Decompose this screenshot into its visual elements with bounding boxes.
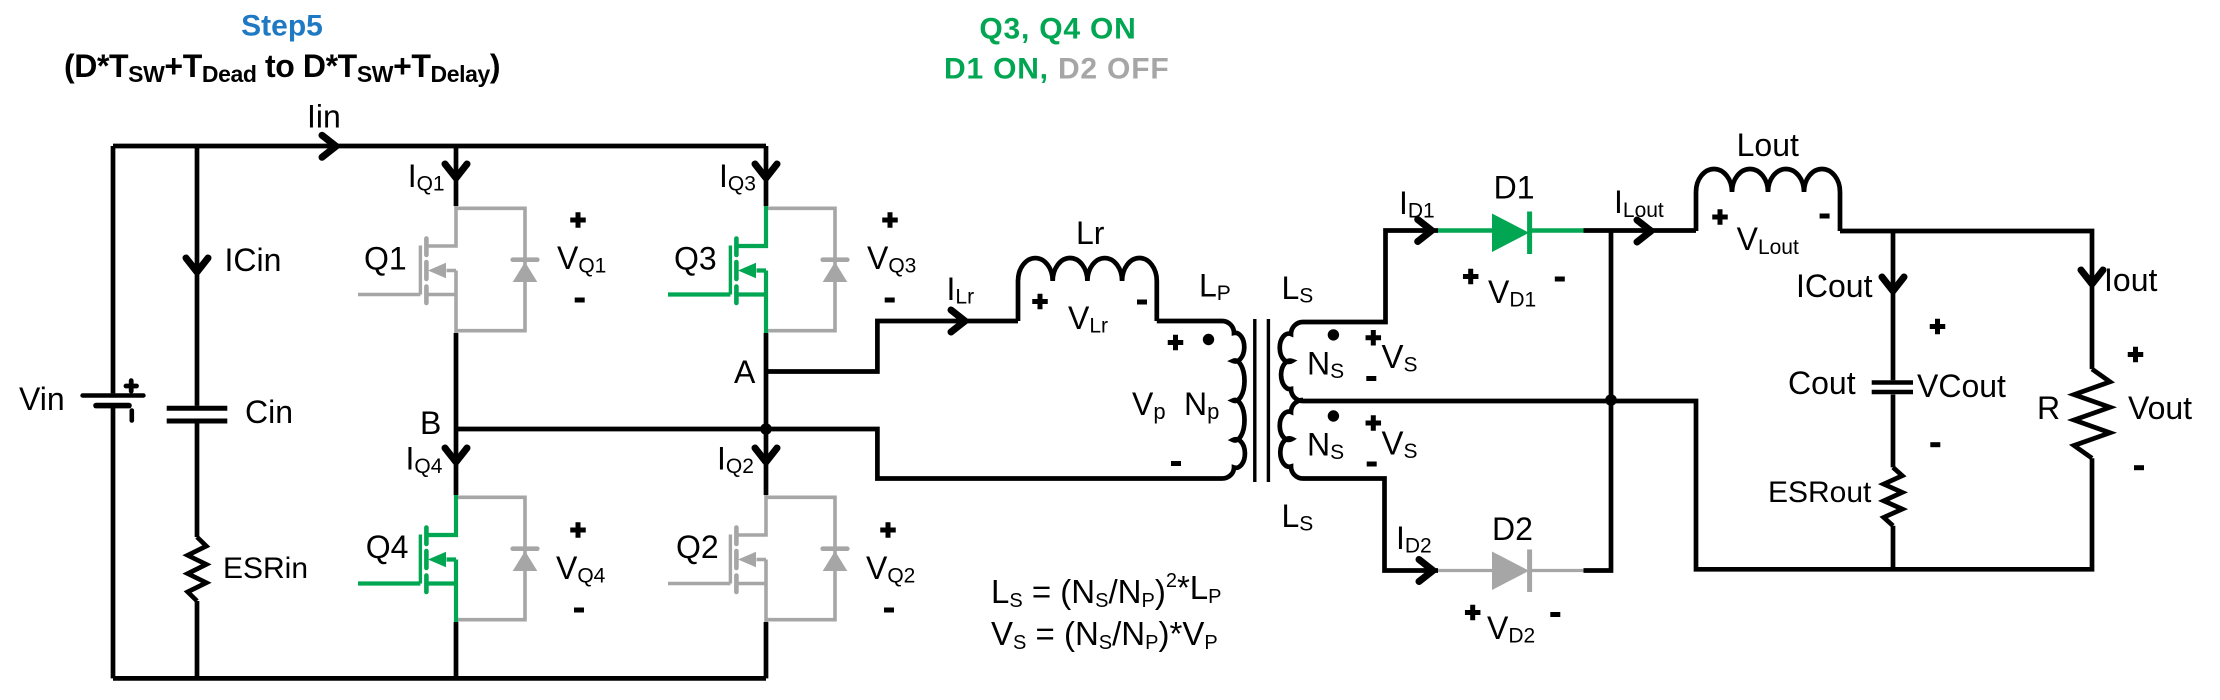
svg-text:Vin: Vin: [19, 381, 65, 417]
wire right leg bottom: [764, 622, 769, 678]
transistor Q3 (on, green) with body diode: [668, 206, 847, 333]
battery Vin: [83, 381, 144, 421]
transistor Q2 (off, gray) with body diode: [668, 495, 847, 622]
svg-text:Q3: Q3: [674, 241, 717, 277]
wire Cin branch upper: [195, 146, 200, 406]
inductor Lout: [1696, 169, 1840, 231]
svg-text:Q1: Q1: [364, 241, 407, 277]
label + Vout -: [2128, 347, 2192, 468]
svg-text:Cin: Cin: [245, 394, 293, 430]
arrow Iin: [322, 135, 336, 157]
arrow IQ2: [755, 448, 777, 462]
diode D1 (on, green): [1438, 212, 1584, 255]
svg-text:Lout: Lout: [1737, 127, 1799, 163]
wire D2 output: [1584, 400, 1612, 571]
label primary +: [1168, 335, 1184, 351]
wire right leg top: [764, 146, 769, 206]
arrow ID1: [1418, 220, 1432, 242]
svg-text:Lr: Lr: [1076, 215, 1105, 251]
arrow ICin: [186, 258, 208, 272]
wire Lout to load: [1840, 231, 2092, 369]
arrow IQ4: [445, 448, 467, 462]
label + VQ1 -: [557, 212, 606, 300]
svg-text:Iout: Iout: [2104, 262, 2157, 298]
wire bottom rail: [113, 676, 766, 681]
svg-text:Step5: Step5: [241, 10, 323, 43]
dot Ls bottom polarity: [1328, 410, 1339, 421]
transformer core: [1255, 319, 1269, 482]
svg-text:Iin: Iin: [307, 99, 341, 135]
label + VQ4 -: [556, 522, 606, 610]
svg-text:B: B: [420, 405, 441, 441]
wire Lr to transformer primary / winding Lp: [456, 321, 1245, 479]
wire Cin branch middle: [195, 423, 200, 537]
label + VLout -: [1712, 209, 1829, 259]
wire left vertical upper (Vin +): [111, 146, 116, 393]
transistor Q4 (on, green) with body diode: [358, 495, 537, 622]
wire top rail: [113, 144, 766, 149]
arrow IQ1: [445, 164, 467, 178]
transistor Q1 (off, gray) with body diode: [358, 206, 537, 333]
junction dot rectifier bus: [1605, 394, 1617, 406]
arrow ILout: [1637, 220, 1651, 242]
label + VD2 -: [1465, 605, 1560, 648]
wire left vertical lower (Vin -): [111, 408, 116, 679]
svg-text:ESRout: ESRout: [1768, 476, 1872, 509]
arrow ICout: [1882, 277, 1904, 291]
label primary -: [1171, 461, 1181, 466]
svg-text:Q2: Q2: [676, 529, 719, 565]
resistor R (load): [2074, 369, 2110, 458]
capacitor Cout: [1872, 383, 1913, 393]
resistor ESRout: [1884, 467, 1903, 525]
svg-text:ESRin: ESRin: [223, 552, 308, 585]
wire left leg top: [454, 146, 459, 206]
dot Ls top polarity: [1328, 329, 1339, 340]
diode D2 (off, gray): [1438, 550, 1584, 593]
wire D1 output to Lout: [1584, 228, 1697, 233]
inductor Lr: [1018, 258, 1157, 321]
svg-text:ICout: ICout: [1796, 268, 1873, 304]
svg-text:Q3, Q4 ON: Q3, Q4 ON: [979, 13, 1136, 46]
svg-text:A: A: [734, 354, 756, 390]
arrow ID2: [1419, 560, 1433, 582]
dot primary polarity: [1203, 334, 1214, 345]
wire right leg middle (A node): [764, 333, 769, 495]
svg-text:D2: D2: [1492, 511, 1533, 547]
wire Cin branch lower: [195, 601, 200, 678]
arrow Iout: [2081, 270, 2103, 284]
svg-text:R: R: [2037, 390, 2060, 426]
svg-text:ICin: ICin: [225, 242, 282, 278]
arrow IQ3: [755, 164, 777, 178]
svg-text:VCout: VCout: [1917, 368, 2006, 404]
label + VS - bottom: [1366, 415, 1418, 464]
label + VD1 -: [1463, 269, 1565, 312]
wire rectifier output bus: [1609, 231, 1614, 401]
label + VQ3 -: [867, 212, 916, 300]
svg-text:Vout: Vout: [2128, 390, 2192, 426]
svg-text:D1: D1: [1494, 170, 1535, 206]
junction dot node B crossing: [760, 423, 772, 435]
label + VLr -: [1032, 294, 1147, 338]
wire left leg bottom: [454, 622, 459, 678]
wire node A to Lr: [766, 321, 1018, 372]
label + VQ2 -: [866, 522, 915, 610]
svg-text:D1 ON, D2 OFF: D1 ON, D2 OFF: [944, 53, 1169, 86]
label + VS - top: [1366, 330, 1418, 378]
capacitor Cin: [167, 408, 228, 421]
winding Ls bottom: [1280, 400, 1438, 571]
wire Cout branch upper: [1891, 231, 1896, 380]
svg-text:Q4: Q4: [366, 529, 409, 565]
wire Cout branch lower: [1891, 526, 1896, 570]
resistor ESRin: [188, 537, 207, 601]
label + VCout -: [1917, 319, 2006, 445]
svg-text:Cout: Cout: [1788, 365, 1856, 401]
arrow ILr: [951, 310, 965, 332]
wire Cout branch middle: [1891, 395, 1896, 468]
winding Ls top with center line to output return: [1280, 231, 2092, 570]
wire left leg middle (B node): [454, 333, 459, 495]
